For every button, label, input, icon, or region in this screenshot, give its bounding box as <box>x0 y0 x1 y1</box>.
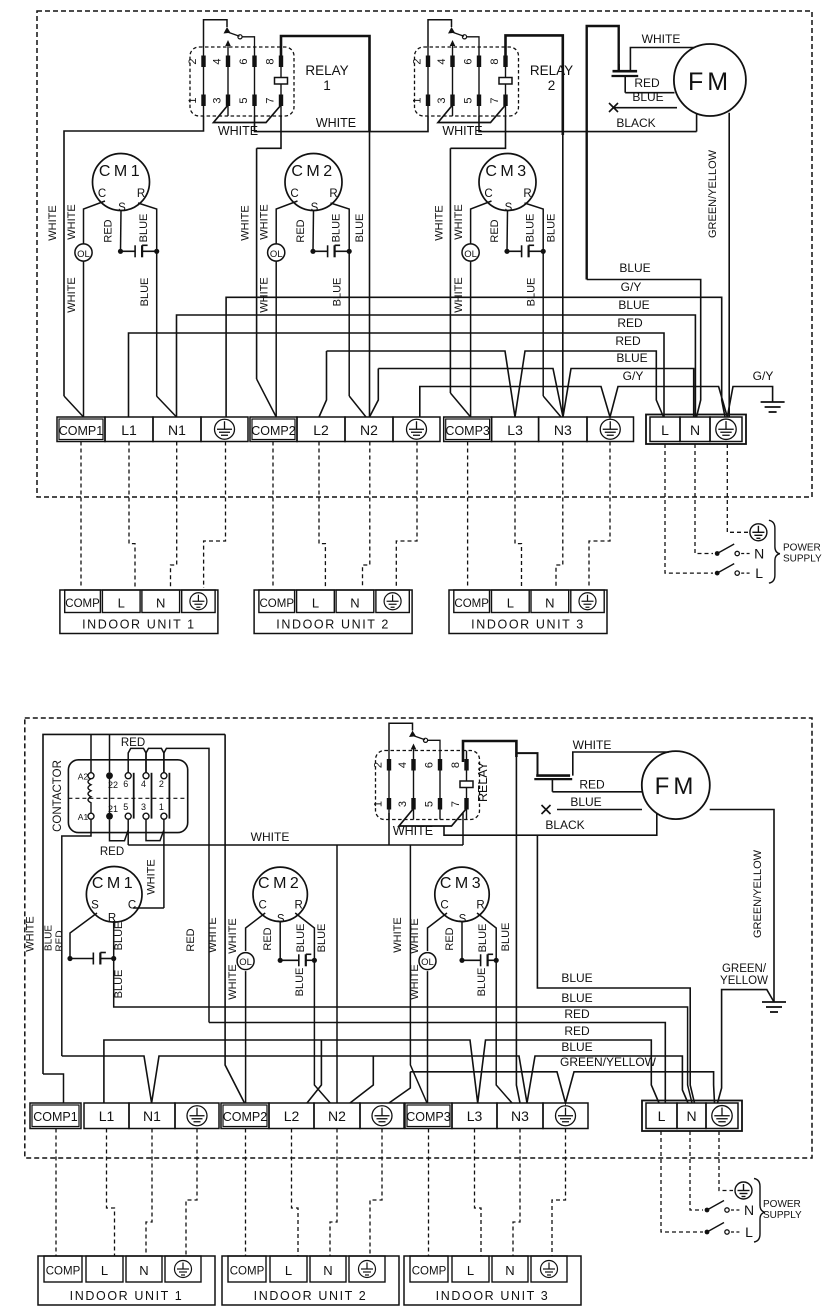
svg-text:INDOOR UNIT 1: INDOOR UNIT 1 <box>82 618 196 632</box>
relay RELAY 2 switch: pin2 riser and moving contact <box>428 20 452 47</box>
svg-text:BLUE: BLUE <box>561 991 592 1005</box>
relay RELAY 2 pins3-7 white jumper <box>438 105 506 123</box>
svg-text:WHITE: WHITE <box>240 205 252 240</box>
svg-text:A1: A1 <box>78 812 89 822</box>
svg-text:WHITE: WHITE <box>409 918 421 953</box>
dashed wire L3 to IU3 bottom <box>475 1129 482 1257</box>
svg-text:1: 1 <box>159 802 164 812</box>
compressor motor CM2 <box>285 154 342 211</box>
CM2 left white vertical <box>256 148 258 379</box>
compressor motor CM3 <box>479 154 536 211</box>
CM3 capacitor <box>462 954 496 966</box>
relay RELAY 2 actuator arrow on pin4 <box>452 42 454 47</box>
terminal N2 bottom <box>314 1103 360 1129</box>
svg-text:5: 5 <box>463 97 475 103</box>
svg-text:COMP: COMP <box>230 1266 265 1278</box>
svg-text:1: 1 <box>187 97 199 103</box>
relay RELAY 1 switch: pin2 riser and moving contact <box>204 20 228 47</box>
FM black lead <box>444 813 657 835</box>
terminal N3 bottom <box>497 1103 543 1129</box>
svg-text:R: R <box>476 900 484 912</box>
band wire RED (L1 to L) <box>129 333 665 417</box>
indoor unit 3 bottom outer box <box>404 1256 581 1305</box>
relay pin1 drop to long white <box>388 813 390 845</box>
svg-text:BLACK: BLACK <box>616 116 655 130</box>
svg-text:4: 4 <box>436 58 448 64</box>
white drop to COMP2 via CM2 left <box>225 734 244 1103</box>
svg-text:S: S <box>91 900 99 912</box>
blue drop from long white to N2 <box>336 845 338 1103</box>
FM red lead <box>552 791 643 793</box>
indoor unit 3 bottom terminal boxes <box>410 1256 448 1282</box>
svg-text:CM3: CM3 <box>440 875 484 892</box>
svg-text:FM: FM <box>688 68 732 96</box>
CM1 C lead wire with overload OL <box>84 201 106 244</box>
CM3 blue wire down <box>496 960 512 1103</box>
contactor terminal A2 <box>88 773 94 779</box>
svg-text:5: 5 <box>238 97 250 103</box>
svg-text:WHITE: WHITE <box>227 918 239 953</box>
svg-text:1: 1 <box>412 97 424 103</box>
terminal N2 <box>345 417 393 442</box>
svg-text:6: 6 <box>123 779 128 789</box>
svg-text:COMP3: COMP3 <box>406 1110 451 1124</box>
svg-text:N2: N2 <box>360 422 378 438</box>
terminal COMP3 bottom <box>405 1103 452 1129</box>
svg-text:2: 2 <box>548 78 556 93</box>
svg-text:L: L <box>755 565 763 581</box>
svg-text:2: 2 <box>159 779 164 789</box>
ground symbol (bottom) <box>762 1002 786 1012</box>
power supply earth symbol <box>750 524 767 541</box>
FM capacitor (bottom) <box>534 776 572 792</box>
power supply brace <box>769 520 780 583</box>
contactor A2 wire up to top rail <box>90 734 92 772</box>
svg-text:COMP2: COMP2 <box>251 424 296 438</box>
svg-text:COMP1: COMP1 <box>59 424 104 438</box>
svg-text:CM1: CM1 <box>99 163 143 180</box>
svg-text:BLUE: BLUE <box>545 214 557 243</box>
fan motor FM circle <box>674 44 746 116</box>
svg-text:G/Y: G/Y <box>621 280 642 294</box>
CM3 C lead with OL <box>428 913 448 951</box>
svg-text:WHITE: WHITE <box>66 277 78 312</box>
svg-text:L3: L3 <box>467 1108 483 1124</box>
terminal earth 2 <box>393 417 440 442</box>
long white wire contactor5 to relay <box>128 844 463 846</box>
svg-text:8: 8 <box>450 762 462 768</box>
svg-text:OL: OL <box>421 957 434 968</box>
relay switch <box>389 723 413 750</box>
dashed wire earth3 to IU3 <box>589 442 610 589</box>
svg-text:WHITE: WHITE <box>251 830 290 844</box>
terminal earth 3 <box>587 417 634 442</box>
svg-text:C: C <box>440 900 448 912</box>
svg-text:N: N <box>754 546 764 562</box>
band wire RED (L2,L3 to L) <box>327 351 664 417</box>
svg-text:3: 3 <box>141 802 146 812</box>
svg-text:WHITE: WHITE <box>259 277 271 312</box>
svg-text:N: N <box>323 1263 332 1278</box>
svg-text:CM1: CM1 <box>92 875 136 892</box>
svg-text:CM2: CM2 <box>258 875 302 892</box>
contactor 22 wire up to top rail <box>109 734 111 772</box>
svg-text:N: N <box>744 1202 754 1218</box>
svg-text:R: R <box>523 188 531 200</box>
svg-text:7: 7 <box>265 97 277 103</box>
CM2 R lead wire (BLUE) <box>331 203 350 251</box>
terminal COMP1 bottom <box>30 1103 81 1129</box>
indoor unit 2 terminal boxes <box>259 590 295 613</box>
CM1 R lead long blue wire to N <box>114 921 692 1103</box>
svg-text:SUPPLY: SUPPLY <box>783 554 822 565</box>
indoor unit 1 outer box <box>60 590 218 634</box>
contactor 5 wire to long white <box>127 819 129 845</box>
dashed wire earth2 to IU2 <box>396 442 417 589</box>
svg-text:COMP: COMP <box>46 1266 81 1278</box>
relay1 pin8 wire up-right-down to N2 <box>281 36 370 132</box>
svg-text:RED: RED <box>579 778 605 792</box>
contactor 1 wire down to CM1 C <box>163 819 165 908</box>
dashed wire COMP3 to IU3 bottom <box>428 1129 430 1257</box>
CM2 capacitor <box>280 954 314 966</box>
svg-text:COMP2: COMP2 <box>223 1110 268 1124</box>
white drop long white to CM3/COMP3 <box>410 845 427 1103</box>
power supply switch L <box>705 1230 710 1235</box>
svg-text:L: L <box>101 1263 108 1278</box>
svg-text:6: 6 <box>424 762 436 768</box>
terminal COMP1 <box>57 417 105 442</box>
svg-text:WHITE: WHITE <box>146 859 158 894</box>
dashed wire COMP2 to IU2 <box>272 442 274 589</box>
FM white lead <box>573 752 669 776</box>
CM2 C lead with OL <box>246 913 266 951</box>
CM2 S lead <box>279 922 281 961</box>
red wire from contact 2 to drop <box>164 748 209 1022</box>
dashed wire COMP2 to IU2 bottom <box>245 1129 247 1257</box>
svg-text:RELAY: RELAY <box>530 63 573 78</box>
svg-text:21: 21 <box>108 804 118 814</box>
terminal L1 bottom <box>84 1103 129 1129</box>
CM1 blue wire down from capacitor <box>156 251 158 396</box>
svg-text:BLUE: BLUE <box>113 922 125 951</box>
svg-text:INDOOR UNIT 2: INDOOR UNIT 2 <box>276 618 390 632</box>
relay RELAY 1 pins3-7 white jumper <box>214 105 282 123</box>
relay pin lines <box>388 751 390 820</box>
indoor unit 2 bottom outer box <box>222 1256 399 1305</box>
svg-text:22: 22 <box>108 780 118 790</box>
svg-text:N: N <box>690 422 700 438</box>
bottom diagram outer dashed enclosure <box>25 718 812 1158</box>
main terminal block outer bottom <box>642 1101 742 1132</box>
svg-text:N: N <box>686 1108 696 1124</box>
terminal N main bottom <box>677 1103 706 1129</box>
svg-text:INDOOR UNIT 3: INDOOR UNIT 3 <box>471 618 585 632</box>
svg-text:N1: N1 <box>168 422 186 438</box>
svg-text:BLUE: BLUE <box>525 214 537 243</box>
svg-text:POWER: POWER <box>763 1199 801 1210</box>
svg-text:RELAY: RELAY <box>305 63 348 78</box>
svg-text:WHITE: WHITE <box>47 205 59 240</box>
CM1 C lead up to contactor <box>133 907 164 909</box>
terminal COMP2 bottom <box>221 1103 269 1129</box>
FM white lead to capacitor <box>630 48 694 72</box>
svg-text:1: 1 <box>373 801 385 807</box>
CM3 R lead wire (BLUE) <box>525 203 544 251</box>
dashed wire earth2 to IU2 bottom <box>370 1129 382 1257</box>
svg-text:BLUE: BLUE <box>113 970 125 999</box>
svg-text:RED: RED <box>121 737 145 749</box>
svg-text:R: R <box>295 900 303 912</box>
svg-text:YELLOW: YELLOW <box>720 975 768 987</box>
dashed wire N2 to IU2 <box>363 442 370 589</box>
dashed wire L2 to IU2 bottom <box>292 1129 299 1257</box>
CM1 S lead wire (RED) <box>120 211 123 252</box>
svg-text:INDOOR UNIT 1: INDOOR UNIT 1 <box>70 1289 184 1303</box>
svg-text:RED: RED <box>103 219 115 242</box>
indoor unit 1 terminal boxes <box>65 590 101 613</box>
svg-text:RED: RED <box>185 928 197 951</box>
CM1 S lead <box>70 913 97 959</box>
svg-text:GREEN/YELLOW: GREEN/YELLOW <box>707 149 719 238</box>
svg-text:5: 5 <box>424 801 436 807</box>
svg-text:7: 7 <box>450 801 462 807</box>
FM green/yellow wire to ground <box>710 810 774 1003</box>
svg-text:BLUE: BLUE <box>616 351 647 365</box>
svg-text:WHITE: WHITE <box>259 204 271 239</box>
power supply switch N <box>705 1208 710 1213</box>
svg-text:RED: RED <box>615 334 641 348</box>
svg-text:WHITE: WHITE <box>442 124 482 138</box>
contactor contacts 22/21 <box>106 772 113 779</box>
svg-text:COMP: COMP <box>412 1266 447 1278</box>
svg-text:1: 1 <box>323 78 331 93</box>
svg-text:OL: OL <box>239 957 252 968</box>
terminal L3 <box>492 417 539 442</box>
indoor unit 2 bottom terminal boxes <box>228 1256 266 1282</box>
FM green/yellow wire down to earth terminal <box>728 113 730 417</box>
svg-text:BLUE: BLUE <box>561 971 592 985</box>
CM2 blue wire down <box>314 960 330 1103</box>
CM1 R lead wire (BLUE) <box>138 203 157 251</box>
indoor unit 2 outer box <box>254 590 412 634</box>
CM2 run capacitor <box>313 245 349 257</box>
svg-text:RED: RED <box>100 846 124 858</box>
svg-text:L: L <box>312 595 319 610</box>
relay pin8 wire to FM and N3 <box>463 741 516 762</box>
dashed wire L1 to IU1 bottom <box>107 1129 115 1257</box>
white wire into COMP1 <box>43 1074 64 1103</box>
dashed wire earth main to power supply earth <box>727 444 748 532</box>
svg-text:L3: L3 <box>507 422 523 438</box>
svg-text:L: L <box>745 1224 753 1240</box>
terminal earth2 bottom <box>360 1103 404 1129</box>
terminal N main <box>680 417 710 442</box>
svg-text:RED: RED <box>55 930 66 951</box>
svg-text:C: C <box>128 900 136 912</box>
svg-text:L: L <box>118 595 125 610</box>
svg-text:3: 3 <box>436 97 448 103</box>
svg-text:L1: L1 <box>99 1108 115 1124</box>
power supply brace <box>754 1179 765 1243</box>
svg-text:WHITE: WHITE <box>642 32 681 46</box>
svg-text:BLUE: BLUE <box>561 1040 592 1054</box>
svg-text:BLUE: BLUE <box>316 924 328 953</box>
svg-text:WHITE: WHITE <box>25 916 37 951</box>
relay RELAY 2 contact pads <box>426 56 430 68</box>
power supply switch N <box>715 551 720 556</box>
svg-text:POWER: POWER <box>783 543 821 554</box>
band wire G/Y (earth1 to earth main) <box>226 297 725 417</box>
svg-text:N1: N1 <box>143 1108 161 1124</box>
svg-text:S: S <box>118 202 126 214</box>
svg-text:COMP1: COMP1 <box>33 1110 78 1124</box>
FM red lead <box>625 92 674 94</box>
svg-text:3: 3 <box>212 97 224 103</box>
CM3 white diagonal into COMP3 <box>450 393 470 417</box>
terminal earth1 bottom <box>175 1103 219 1129</box>
ground symbol top right <box>761 402 785 412</box>
terminal COMP3 <box>444 417 492 442</box>
svg-text:WHITE: WHITE <box>393 824 433 838</box>
relay RELAY 1 contact pads <box>201 56 205 68</box>
CM2 white diagonal into COMP2 <box>257 379 277 417</box>
dashed wire COMP1 to IU1 bottom <box>55 1129 57 1257</box>
svg-text:BLUE: BLUE <box>619 261 650 275</box>
dashed wire earth1 to IU1 <box>204 442 226 589</box>
contactor 3-1 jumper <box>146 819 164 840</box>
relay RELAY 1 coil <box>275 78 288 85</box>
svg-text:L2: L2 <box>313 422 329 438</box>
svg-text:INDOOR UNIT 2: INDOOR UNIT 2 <box>254 1289 368 1303</box>
CM2 blue wire down from capacitor <box>348 251 350 396</box>
svg-text:WHITE: WHITE <box>207 917 219 952</box>
svg-text:FM: FM <box>655 773 698 800</box>
dashed wire N main to power switch <box>695 444 713 554</box>
CM3 C lead wire with overload OL <box>471 201 492 244</box>
terminal L2 <box>297 417 345 442</box>
svg-text:BLUE: BLUE <box>354 214 366 243</box>
svg-text:BLUE: BLUE <box>632 90 663 104</box>
CM3 blue diagonal into N3 <box>543 396 561 417</box>
CM1 left white wire from relay1 pin1 <box>64 116 204 396</box>
CM3 R lead <box>477 913 496 960</box>
band wire BLUE (A1,N1,N2,N3 to N) bottom <box>62 1056 688 1103</box>
svg-text:C: C <box>98 188 106 200</box>
terminal N1 <box>153 417 201 442</box>
svg-text:RED: RED <box>617 316 643 330</box>
BLUE tee drop to N2 <box>350 1056 373 1103</box>
svg-text:4: 4 <box>141 779 146 789</box>
contactor A1 blue wire down to band <box>62 819 91 1056</box>
FM run capacitor (horizontal plates) <box>612 64 639 93</box>
svg-text:RELAY: RELAY <box>476 761 490 802</box>
FM black lead down-left joining long wire <box>696 114 698 132</box>
svg-text:R: R <box>329 188 337 200</box>
band wire BLUE (FM cap to N) <box>587 280 701 418</box>
svg-text:A2: A2 <box>78 772 89 782</box>
svg-text:N: N <box>156 595 165 610</box>
svg-text:C: C <box>259 900 267 912</box>
CM3 blue wire down from capacitor <box>542 251 544 396</box>
indoor unit 1 bottom outer box <box>38 1256 215 1305</box>
green/yellow earth wire to main earth terminal <box>718 990 775 1103</box>
svg-text:COMP: COMP <box>260 598 295 610</box>
svg-text:7: 7 <box>489 97 501 103</box>
dashed wire COMP1 to IU1 <box>80 442 82 589</box>
terminal L3 bottom <box>452 1103 497 1129</box>
svg-text:OL: OL <box>270 249 283 260</box>
relay RELAY 2 coil <box>499 78 512 85</box>
svg-text:N: N <box>139 1263 148 1278</box>
band wire BLUE (N2,N3 to N) <box>378 369 693 418</box>
CM1 capacitor <box>70 953 114 965</box>
dashed wire N1 to IU1 <box>171 442 177 589</box>
svg-text:CM2: CM2 <box>291 163 335 180</box>
svg-text:N: N <box>350 595 359 610</box>
svg-text:GREEN/YELLOW: GREEN/YELLOW <box>560 1055 657 1069</box>
contactor coil <box>88 779 91 813</box>
svg-text:C: C <box>484 188 492 200</box>
svg-text:2: 2 <box>187 58 199 64</box>
dashed wire earth main to power supply bottom <box>719 1131 733 1191</box>
svg-text:L2: L2 <box>284 1108 300 1124</box>
terminal earth3 bottom <box>543 1103 588 1129</box>
svg-text:N3: N3 <box>554 422 572 438</box>
dashed wire L main to power switch bottom <box>661 1131 703 1232</box>
band wire RED (L1,L2,L3 to L) bottom <box>104 1040 659 1103</box>
svg-text:S: S <box>505 202 513 214</box>
svg-text:4: 4 <box>397 762 409 768</box>
svg-text:3: 3 <box>397 801 409 807</box>
dashed wire N1 to IU1 bottom <box>146 1129 152 1257</box>
terminal COMP2 <box>250 417 297 442</box>
N2 drop diagonal <box>370 369 379 418</box>
RED tee drop to L2 <box>307 1040 321 1103</box>
svg-text:WHITE: WHITE <box>66 204 78 239</box>
dashed wire L2 to IU2 <box>319 442 325 589</box>
svg-text:N2: N2 <box>328 1108 346 1124</box>
svg-text:6: 6 <box>238 58 250 64</box>
svg-text:WHITE: WHITE <box>392 917 404 952</box>
svg-text:L: L <box>658 1108 666 1124</box>
svg-text:BLACK: BLACK <box>545 818 584 832</box>
svg-text:GREEN/: GREEN/ <box>722 963 767 975</box>
terminal L main <box>650 417 680 442</box>
contactor 21-5 red jumper <box>110 820 129 841</box>
dashed wire N3 to IU3 bottom <box>513 1129 520 1257</box>
band wire BLUE (FM black to N) bottom <box>537 835 694 1103</box>
svg-text:BLUE: BLUE <box>476 968 488 997</box>
band wire RED (contactor to L) bottom <box>209 1023 665 1104</box>
svg-text:WHITE: WHITE <box>227 964 239 999</box>
relay RELAY 2 body <box>415 47 519 116</box>
relay1 pin7 wire to CM2 white <box>257 116 281 148</box>
band wire G/Y (earth2,earth3,earth to ground) <box>420 387 773 418</box>
power supply switch L <box>715 571 720 576</box>
band wire BLUE (N1 to N) <box>177 315 696 417</box>
svg-text:BLUE: BLUE <box>294 968 306 997</box>
svg-text:8: 8 <box>265 58 277 64</box>
main terminal block outer <box>646 415 746 445</box>
terminal N3 <box>539 417 587 442</box>
relay2 pin5 black/white long wire to FM <box>479 116 697 132</box>
FM blue lead with X end <box>614 107 677 109</box>
svg-text:BLUE: BLUE <box>526 278 538 307</box>
relay RELAY 1 body <box>190 47 294 116</box>
dashed wire N2 to IU2 bottom <box>330 1129 337 1257</box>
red jumper arcs 6-4-2 <box>128 748 146 772</box>
